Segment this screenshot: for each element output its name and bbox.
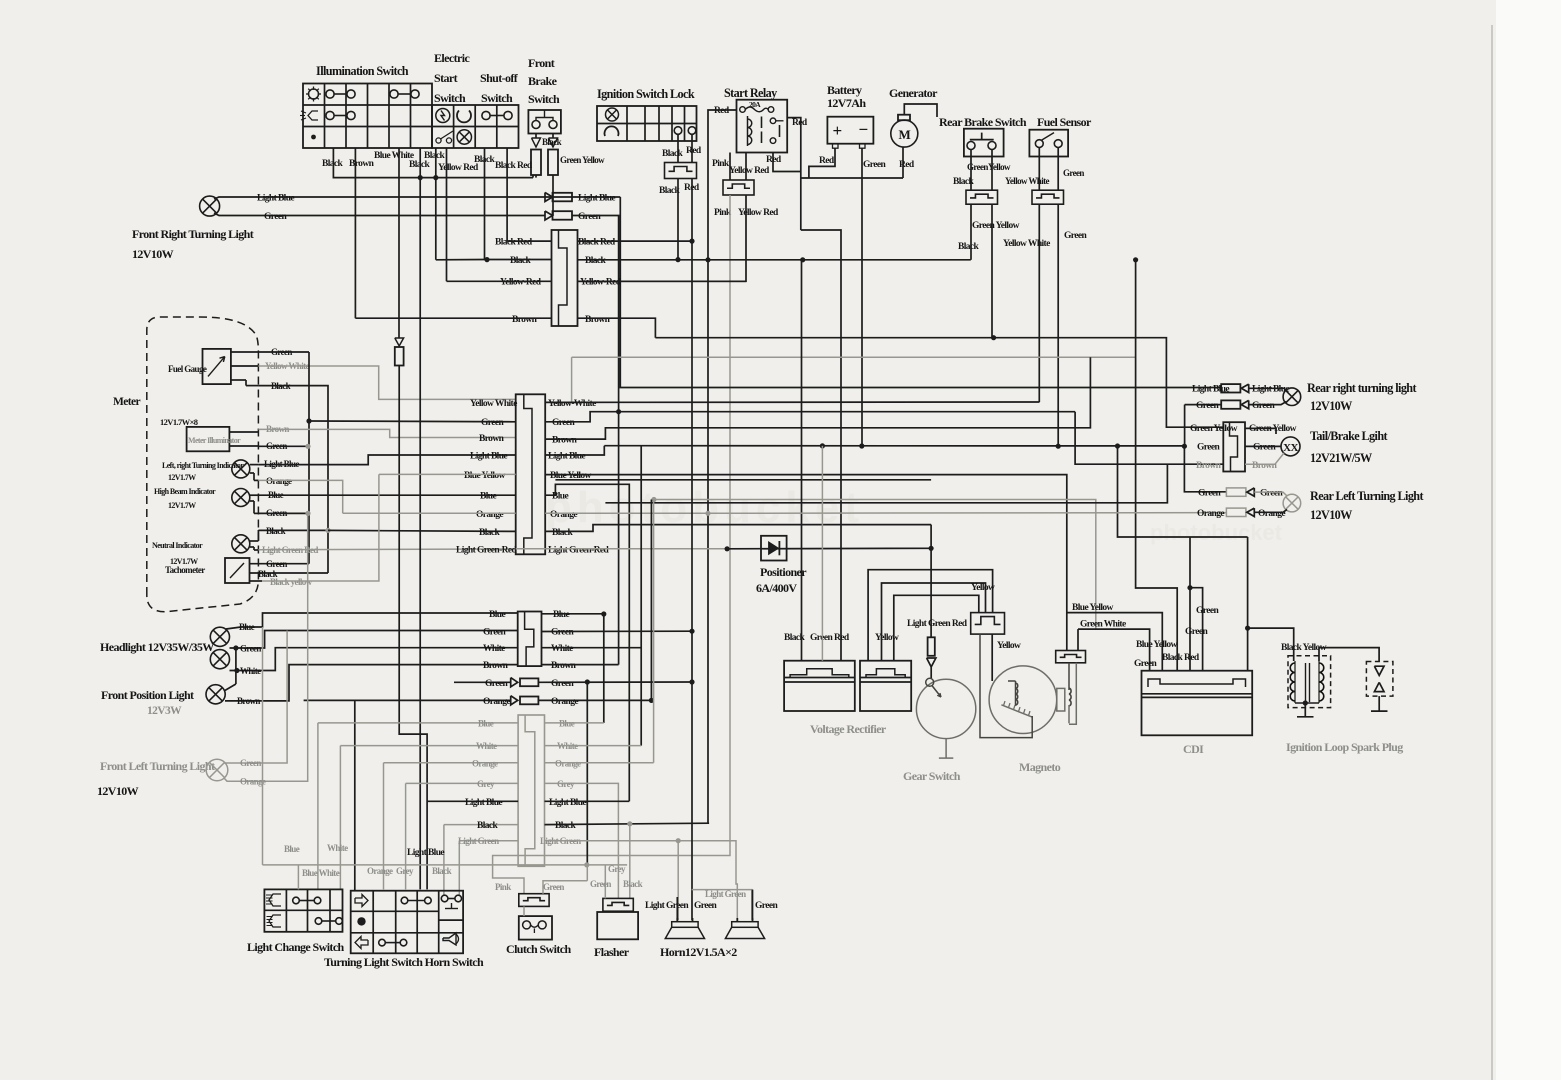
svg-text:Green: Green	[1134, 659, 1157, 669]
svg-text:Green: Green	[1196, 401, 1219, 411]
svg-text:Brown: Brown	[585, 315, 611, 325]
svg-text:Neutral Indicator: Neutral Indicator	[152, 541, 203, 550]
Electric Start / Shut-off switch table	[432, 105, 519, 148]
svg-text:Light Green: Light Green	[458, 836, 499, 846]
svg-text:Red: Red	[819, 156, 835, 166]
Generator circle	[891, 120, 918, 147]
Magneto circle	[989, 666, 1057, 734]
svg-text:Blue: Blue	[489, 610, 505, 620]
svg-text:Brown: Brown	[1252, 461, 1278, 471]
svg-text:Black: Black	[477, 821, 499, 831]
turn contacts row3	[379, 939, 386, 946]
headlight lamp high	[210, 627, 229, 646]
svg-text:Switch: Switch	[434, 91, 466, 105]
green diode row	[454, 681, 511, 683]
light blue wire to rear	[620, 197, 1221, 388]
svg-text:CDI: CDI	[1183, 742, 1204, 756]
svg-text:Blue Yellow: Blue Yellow	[1072, 603, 1114, 613]
Ignition Loop dashed box	[1288, 656, 1331, 708]
svg-text:Green: Green	[1252, 401, 1275, 411]
black wire down	[970, 204, 972, 260]
clutch connector	[519, 894, 549, 907]
turn contacts row1	[401, 897, 408, 904]
svg-text:Green: Green	[485, 679, 508, 689]
svg-text:Blue Yellow: Blue Yellow	[1136, 640, 1178, 650]
svg-text:Black: Black	[432, 866, 452, 876]
svg-text:Light Blue: Light Blue	[407, 848, 444, 858]
svg-text:White: White	[483, 644, 505, 654]
green vertical link	[1184, 405, 1186, 447]
svg-text:Green White: Green White	[1080, 620, 1126, 630]
positioner line	[727, 547, 931, 550]
svg-text:Clutch Switch: Clutch Switch	[506, 942, 571, 956]
Gear Switch circle	[916, 679, 975, 738]
svg-text:Start Relay: Start Relay	[724, 86, 777, 100]
green long bus	[604, 445, 1184, 447]
relay contact	[770, 118, 776, 124]
magneto toothed winding	[1001, 705, 1032, 717]
svg-text:Tachometer: Tachometer	[165, 565, 205, 575]
green white feed	[1077, 629, 1079, 650]
svg-text:−: −	[858, 120, 867, 139]
svg-text:Green Yellow: Green Yellow	[560, 155, 605, 165]
svg-text:Yellow White: Yellow White	[470, 399, 517, 409]
svg-text:12V10W: 12V10W	[132, 247, 174, 261]
Fuel Gauge box	[203, 349, 231, 384]
svg-text:Horn12V1.5A×2: Horn12V1.5A×2	[660, 945, 737, 959]
headlight lamp low	[210, 650, 229, 669]
svg-text:Light Blue: Light Blue	[470, 452, 507, 462]
svg-text:Black: Black	[958, 242, 980, 252]
rear left lamp	[1283, 494, 1301, 512]
Meter dashed outline	[147, 317, 259, 612]
gray long bus	[572, 356, 1136, 358]
svg-text:Brown: Brown	[237, 696, 260, 706]
svg-text:Black: Black	[510, 256, 532, 266]
svg-text:Green: Green	[481, 418, 504, 428]
svg-text:M: M	[898, 127, 910, 142]
svg-text:High Beam Indicator: High Beam Indicator	[154, 487, 216, 496]
filled dot row2	[357, 917, 365, 925]
svg-text:Illumination Switch: Illumination Switch	[316, 64, 409, 78]
gray link to horn2	[692, 890, 752, 921]
white vertical	[640, 446, 642, 746]
light green right row gray bus	[545, 841, 738, 920]
fuel sensor connector	[1032, 190, 1064, 204]
svg-text:12V21W/5W: 12V21W/5W	[1310, 451, 1372, 465]
gear switch stem	[945, 739, 947, 759]
white row right	[542, 647, 642, 649]
black red row	[507, 240, 551, 242]
blue yellow feed	[1067, 613, 1163, 671]
svg-text:Green: Green	[1196, 606, 1219, 616]
kill switch arc icon	[457, 111, 471, 123]
svg-text:Ignition Switch Lock: Ignition Switch Lock	[597, 87, 695, 101]
svg-text:Yellow-Red: Yellow-Red	[500, 278, 542, 288]
horn row divider	[439, 919, 463, 921]
pink wire down	[493, 195, 730, 894]
svg-text:Light Change Switch: Light Change Switch	[247, 940, 345, 954]
green wire gray	[224, 631, 287, 764]
svg-text:Yellow: Yellow	[971, 583, 995, 593]
magneto coil	[1015, 681, 1017, 706]
svg-text:Yellow: Yellow	[997, 641, 1021, 651]
svg-text:Front Right Turning Light: Front Right Turning Light	[132, 227, 254, 241]
svg-text:XX: XX	[1283, 442, 1298, 454]
gear fuse	[928, 637, 935, 656]
svg-text:Orange: Orange	[483, 697, 510, 707]
tachometer wires	[250, 563, 310, 565]
svg-text:+: +	[832, 121, 841, 140]
svg-text:Orange: Orange	[476, 510, 503, 520]
illumination contact row2	[326, 111, 334, 119]
coil bottom link	[1295, 702, 1319, 704]
blue right row	[545, 722, 604, 724]
rear right lamp	[1283, 388, 1301, 406]
svg-text:Orange: Orange	[550, 510, 577, 520]
green row	[1185, 404, 1222, 406]
red bus to rectifier	[801, 230, 841, 661]
orange diode row	[304, 699, 511, 701]
svg-text:Green: Green	[266, 559, 287, 569]
svg-text:Pink: Pink	[712, 159, 730, 169]
arrow left icon	[355, 937, 368, 949]
svg-text:Black Red: Black Red	[1162, 653, 1200, 663]
yellow loop wire	[868, 570, 993, 661]
svg-text:Flasher: Flasher	[594, 945, 630, 959]
front position lamp	[206, 685, 225, 704]
main harness connector	[516, 394, 546, 554]
svg-text:Black yellow: Black yellow	[270, 577, 313, 587]
Tachometer box	[225, 558, 250, 583]
brown row right	[542, 664, 619, 666]
svg-text:Black: Black	[542, 137, 562, 147]
svg-text:Red: Red	[792, 118, 808, 128]
svg-text:Black: Black	[479, 528, 501, 538]
svg-text:Gear Switch: Gear Switch	[903, 769, 961, 783]
svg-text:Blue Yellow: Blue Yellow	[464, 471, 506, 481]
svg-text:Red: Red	[834, 633, 850, 643]
svg-text:Front Position Light: Front Position Light	[101, 688, 194, 702]
brown wire	[225, 665, 518, 701]
flasher wires	[604, 865, 606, 899]
svg-text:Green: Green	[543, 882, 564, 892]
svg-text:12V1.7W: 12V1.7W	[168, 473, 196, 482]
orange vertical	[650, 500, 652, 701]
brown drop wire	[354, 148, 356, 318]
pickup connector	[1056, 651, 1086, 663]
orange wire gray	[224, 513, 308, 781]
svg-text:Front: Front	[528, 56, 555, 70]
svg-text:Light Blue: Light Blue	[465, 798, 502, 808]
pickup coil	[1068, 663, 1070, 690]
green bus tail run	[1075, 412, 1223, 465]
orange branch down	[354, 700, 356, 890]
positioner fuse top	[395, 338, 404, 346]
svg-text:Pink: Pink	[714, 208, 732, 218]
svg-text:Orange: Orange	[1197, 509, 1224, 519]
svg-text:Blue: Blue	[553, 610, 569, 620]
svg-text:White: White	[551, 644, 573, 654]
svg-text:Light Blue: Light Blue	[1192, 385, 1229, 395]
svg-text:Black: Black	[555, 821, 577, 831]
Battery box	[827, 117, 873, 144]
light blue wire	[214, 197, 620, 199]
black drop wire 2	[419, 148, 421, 178]
svg-text:Light Green: Light Green	[645, 901, 689, 911]
orange right row	[545, 762, 654, 764]
svg-text:Red: Red	[899, 160, 915, 170]
light blue connector	[1221, 384, 1240, 392]
ignition coil primary	[1294, 661, 1296, 703]
svg-text:Positioner: Positioner	[760, 565, 807, 579]
svg-text:Green: Green	[1063, 168, 1084, 178]
green yellow bus	[991, 337, 993, 339]
svg-text:Blue: Blue	[552, 492, 568, 502]
svg-text:White: White	[240, 666, 261, 676]
center vertical A to horn	[691, 179, 693, 921]
upper center connector	[552, 230, 578, 326]
svg-text:Green: Green	[1253, 443, 1276, 453]
green row right	[542, 630, 693, 632]
svg-text:Light Green-Red: Light Green-Red	[548, 545, 610, 555]
horn speaker icon	[443, 933, 456, 945]
svg-text:Green: Green	[590, 879, 611, 889]
key icon	[606, 108, 619, 121]
Front Right Turning Light lamp	[200, 196, 220, 216]
svg-text:Green: Green	[483, 628, 506, 638]
svg-text:Yellow Red: Yellow Red	[738, 208, 779, 218]
coil hv wire	[1319, 648, 1379, 662]
svg-text:Headlight 12V35W/35W: Headlight 12V35W/35W	[100, 640, 214, 654]
svg-text:Blue: Blue	[480, 492, 496, 502]
high beam lamp	[232, 489, 250, 507]
clutch wires	[523, 906, 525, 916]
svg-text:Brown: Brown	[1196, 461, 1222, 471]
svg-text:Grey: Grey	[396, 866, 414, 876]
svg-text:Black Red: Black Red	[578, 238, 616, 248]
svg-text:Meter Illuminator: Meter Illuminator	[188, 436, 241, 445]
green yellow wire down	[991, 204, 993, 338]
lamp link wire	[235, 648, 237, 684]
svg-text:Orange: Orange	[367, 866, 393, 876]
horn 1	[672, 922, 698, 928]
svg-text:Tail/Brake Lgiht: Tail/Brake Lgiht	[1310, 429, 1388, 443]
illumination dot row3	[311, 135, 316, 140]
svg-text:12V1.7W: 12V1.7W	[168, 501, 196, 510]
generator top hook wire	[904, 104, 937, 117]
blue gray vertical	[262, 627, 264, 865]
Start Relay box	[737, 100, 788, 153]
relay connector	[723, 180, 754, 195]
svg-text:Red: Red	[766, 155, 782, 165]
svg-text:Blue: Blue	[239, 622, 255, 632]
svg-text:Brown: Brown	[552, 436, 578, 446]
svg-text:Turning Light Switch Horn Swit: Turning Light Switch Horn Switch	[324, 955, 484, 969]
svg-text:Green: Green	[240, 644, 261, 654]
svg-text:12V3W: 12V3W	[147, 705, 182, 717]
brake resistor right wire	[552, 175, 554, 216]
light green row left	[459, 840, 518, 842]
svg-text:Black: Black	[585, 256, 607, 266]
rear brake connector	[966, 190, 998, 204]
high beam icon	[269, 894, 281, 906]
fuel gauge wires	[231, 351, 259, 353]
light change contacts row2	[315, 918, 322, 925]
svg-text:Green: Green	[1185, 627, 1208, 637]
green white bus gray	[654, 500, 1096, 630]
svg-text:Light Green-Red: Light Green-Red	[456, 545, 518, 555]
svg-text:6A/400V: 6A/400V	[756, 581, 797, 595]
svg-text:Brown: Brown	[479, 434, 505, 444]
magneto connector lower wires	[980, 634, 1032, 738]
svg-text:Generator: Generator	[889, 86, 938, 100]
tail light connector	[1223, 422, 1245, 471]
horn contacts	[441, 895, 448, 902]
svg-text:Switch: Switch	[481, 91, 513, 105]
light green red feed	[930, 525, 932, 638]
shutoff contact	[482, 111, 490, 119]
light blue right row	[545, 800, 630, 802]
relay bottom pins	[745, 153, 747, 181]
illumination contact row1	[326, 90, 334, 98]
Turning Light Switch table	[351, 891, 463, 954]
horn1 wires	[676, 897, 678, 920]
brown bus to right	[655, 338, 1223, 428]
svg-text:Black: Black	[623, 879, 643, 889]
svg-text:Blue White: Blue White	[374, 151, 414, 161]
black bus row	[436, 259, 485, 261]
front left lamp	[206, 759, 228, 781]
Meter Illuminator box	[187, 427, 230, 451]
svg-text:Brown: Brown	[551, 661, 577, 671]
handlebar switch connector	[518, 715, 544, 866]
second dark bus	[555, 479, 931, 481]
svg-text:Green: Green	[1197, 443, 1220, 453]
tail connector right wires	[1245, 428, 1276, 434]
blue white drop wire	[398, 148, 400, 338]
rectifier wires	[801, 260, 803, 661]
svg-text:Green Yellow: Green Yellow	[1190, 424, 1238, 434]
svg-text:Yellow White: Yellow White	[1005, 176, 1049, 186]
gray bus y865	[263, 864, 628, 866]
svg-text:Green: Green	[1260, 489, 1283, 499]
svg-text:12V10W: 12V10W	[1310, 508, 1352, 522]
Spark Plug dashed box	[1366, 662, 1393, 697]
svg-text:Yellow Red: Yellow Red	[438, 163, 479, 173]
blue white vertical	[297, 865, 299, 890]
black right row	[544, 824, 546, 826]
clutch switch box	[519, 916, 552, 940]
svg-text:Yellow White: Yellow White	[1003, 239, 1050, 249]
svg-text:Blue: Blue	[284, 844, 300, 854]
green yellow left wire	[1275, 427, 1277, 429]
green branch vertical	[586, 682, 588, 865]
Rear Brake Switch box	[964, 129, 1004, 157]
Ignition Switch Lock table	[597, 106, 697, 141]
Voltage Rectifier box 1	[784, 661, 855, 711]
rear brake wires	[970, 149, 972, 190]
svg-text:Light Blue: Light Blue	[257, 194, 294, 204]
svg-text:Green: Green	[551, 628, 574, 638]
svg-text:Black Red: Black Red	[495, 238, 533, 248]
svg-text:Grey: Grey	[477, 779, 495, 789]
Front Brake Switch box	[528, 110, 561, 134]
black row left	[444, 824, 518, 826]
svg-text:Black: Black	[552, 528, 574, 538]
turning indicator lamp	[232, 460, 250, 478]
low beam icon	[269, 915, 281, 927]
green wire cont	[572, 216, 619, 665]
spark plug electrodes	[1374, 666, 1384, 675]
svg-text:12V10W: 12V10W	[97, 784, 139, 798]
svg-text:Battery: Battery	[827, 83, 862, 97]
white wire	[230, 648, 518, 671]
blue wire	[226, 613, 518, 629]
svg-text:Rear right turning light: Rear right turning light	[1307, 381, 1416, 395]
horn 2	[732, 922, 758, 928]
svg-text:Light Green Red: Light Green Red	[907, 619, 968, 629]
left staircase wires	[318, 722, 518, 724]
illumination icon sun	[309, 89, 319, 99]
brake switch drop wires	[535, 134, 537, 139]
CDI pin wires	[1136, 260, 1178, 671]
svg-text:Meter: Meter	[113, 396, 140, 408]
fuel sensor wires	[1038, 147, 1040, 190]
black drop wire 3	[435, 148, 437, 260]
light blue row dark	[427, 800, 518, 802]
svg-text:Light Blue: Light Blue	[549, 798, 586, 808]
svg-text:Red: Red	[714, 106, 730, 116]
svg-text:Yellow Red: Yellow Red	[729, 166, 770, 176]
svg-text:Yellow-White: Yellow-White	[548, 399, 596, 409]
meter illuminator wires	[229, 431, 258, 433]
arrow connector left	[532, 138, 541, 147]
neutral indicator lamp	[232, 535, 250, 553]
svg-text:Green: Green	[264, 212, 287, 222]
blue row right	[542, 614, 604, 723]
Flasher box	[597, 912, 638, 939]
svg-text:Ignition Loop Spark Plug: Ignition Loop Spark Plug	[1286, 740, 1403, 754]
svg-text:Blue White: Blue White	[302, 868, 340, 878]
svg-text:Fuel Sensor: Fuel Sensor	[1037, 115, 1092, 129]
svg-text:Shut-off: Shut-off	[480, 71, 519, 85]
Voltage Rectifier box 2	[860, 661, 911, 711]
svg-text:Blue: Blue	[478, 718, 494, 728]
svg-text:White: White	[476, 741, 497, 751]
svg-text:Brake: Brake	[528, 74, 558, 88]
svg-text:Electric: Electric	[434, 51, 470, 65]
Fuel Sensor box	[1029, 130, 1068, 157]
svg-text:White: White	[327, 843, 348, 853]
crossed lamp icon in table	[457, 130, 471, 144]
dark bus to tail	[605, 464, 1167, 503]
black yellow wire	[1248, 628, 1294, 661]
svg-text:12V10W: 12V10W	[1310, 399, 1352, 413]
svg-text:Green: Green	[578, 212, 601, 222]
arrow connector right	[549, 138, 558, 147]
green wire down	[1057, 204, 1059, 446]
svg-text:Fuel Gauge: Fuel Gauge	[168, 364, 207, 374]
start button icon	[436, 109, 450, 123]
yellow red drop	[446, 148, 448, 281]
svg-text:Orange: Orange	[551, 697, 578, 707]
ignition contacts	[674, 127, 682, 135]
blue white wire down	[399, 366, 427, 890]
svg-text:Light Blue: Light Blue	[578, 194, 615, 204]
relay coil	[747, 116, 749, 146]
orange row left light	[708, 512, 1226, 515]
